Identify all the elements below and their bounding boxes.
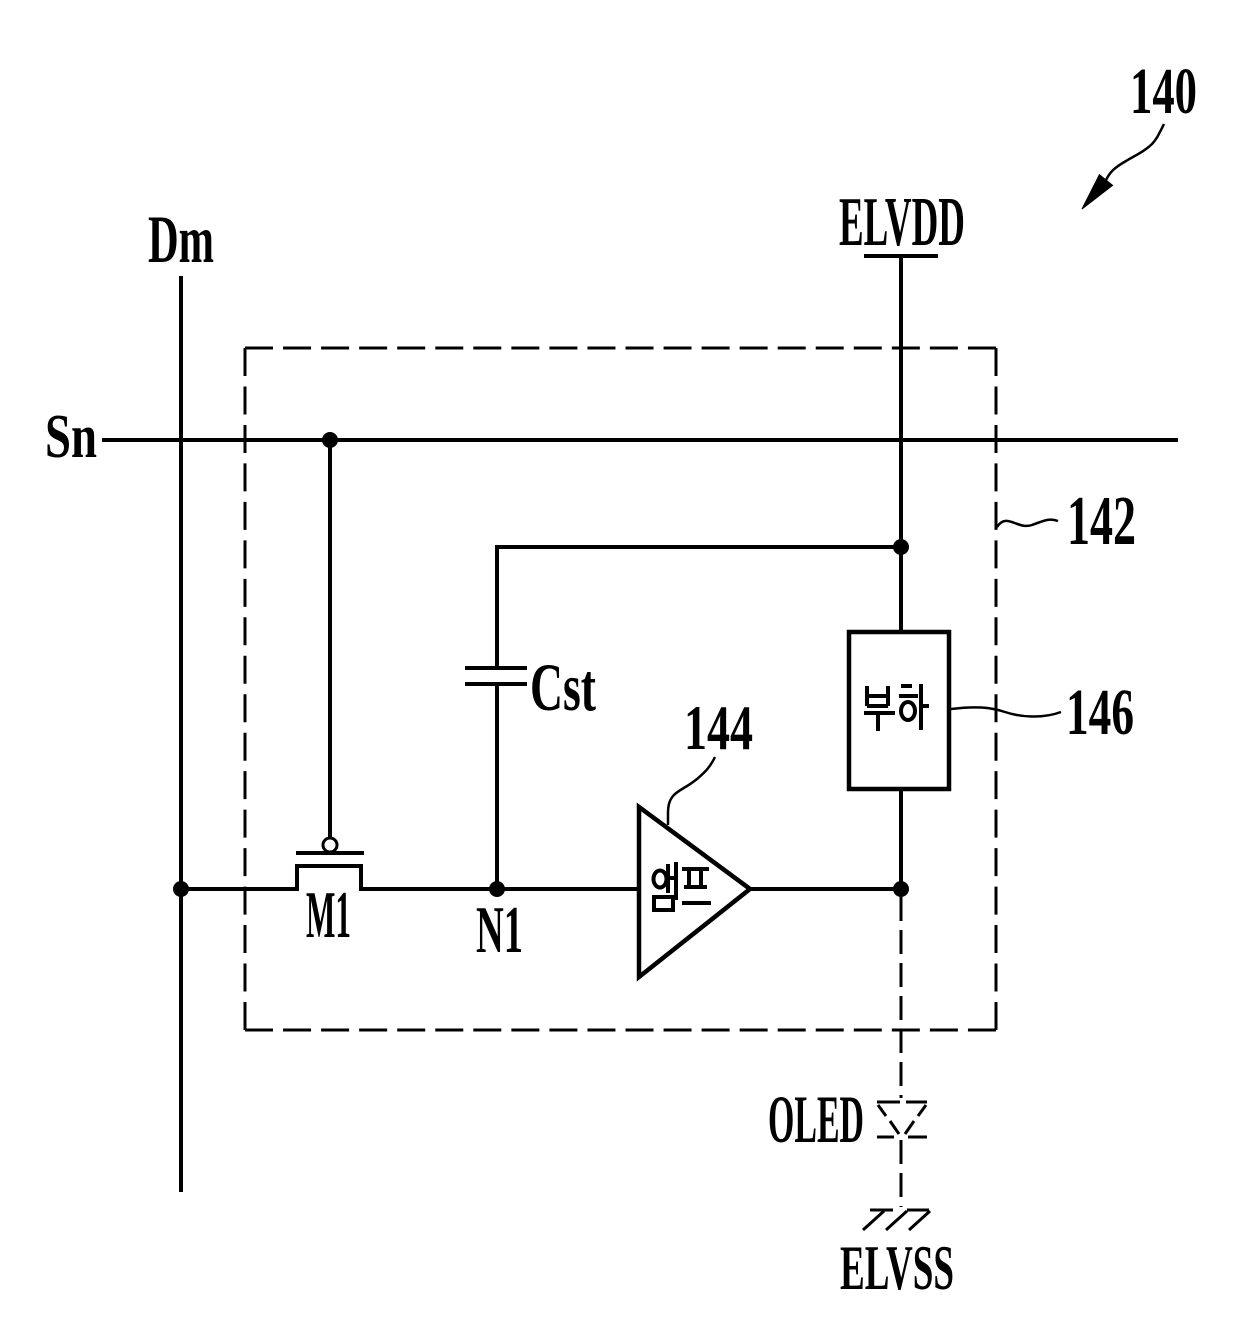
- svg-text:M1: M1: [306, 878, 351, 952]
- wire OLED dashed upper: [900, 897, 903, 1098]
- node Sn-gate junction: [322, 432, 338, 448]
- data line Dm: [179, 276, 183, 1192]
- capacitor Cst: [465, 547, 527, 889]
- load box 146: [849, 632, 949, 789]
- leader squiggle for 146: [951, 707, 1061, 716]
- svg-text:140: 140: [1130, 55, 1197, 128]
- svg-text:142: 142: [1067, 483, 1136, 560]
- svg-text:Sn: Sn: [45, 403, 97, 471]
- svg-text:OLED: OLED: [768, 1081, 864, 1157]
- wire OLED dashed lower: [900, 1140, 903, 1207]
- svg-text:ELVDD: ELVDD: [839, 184, 965, 261]
- wire row left segment: [181, 887, 297, 891]
- pixel dashed box 142: [245, 348, 996, 1030]
- wire row right segment: [361, 887, 641, 891]
- svg-text:N1: N1: [476, 893, 523, 967]
- node on Dm data line: [173, 881, 189, 897]
- power ELVDD terminal bar: [864, 254, 938, 258]
- ground ELVSS symbol: [863, 1210, 930, 1230]
- load korean label (load): [864, 684, 929, 731]
- OLED diode dashed: [877, 1102, 927, 1137]
- svg-text:ELVSS: ELVSS: [840, 1232, 954, 1303]
- svg-text:144: 144: [684, 692, 753, 763]
- wire ELVDD vertical: [899, 258, 903, 634]
- leader arrow for 140: [1082, 124, 1164, 209]
- svg-text:Dm: Dm: [148, 201, 214, 277]
- op-amp korean label (amp): [654, 862, 712, 910]
- wire load bottom: [899, 789, 903, 889]
- wire gate vertical: [328, 440, 332, 838]
- svg-text:146: 146: [1066, 676, 1134, 749]
- svg-text:Cst: Cst: [530, 649, 596, 725]
- node output junction: [893, 881, 909, 897]
- node ELVDD-Cst junction: [893, 539, 909, 555]
- leader squiggle for 144: [668, 757, 715, 825]
- scan line Sn: [102, 438, 1178, 442]
- wire amp output: [750, 887, 901, 891]
- wire Cst top horizontal: [495, 545, 901, 549]
- transistor M1: [296, 838, 364, 891]
- leader squiggle for 142: [997, 520, 1058, 527]
- node N1: [489, 881, 505, 897]
- op-amp U 144 triangle: [639, 807, 750, 977]
